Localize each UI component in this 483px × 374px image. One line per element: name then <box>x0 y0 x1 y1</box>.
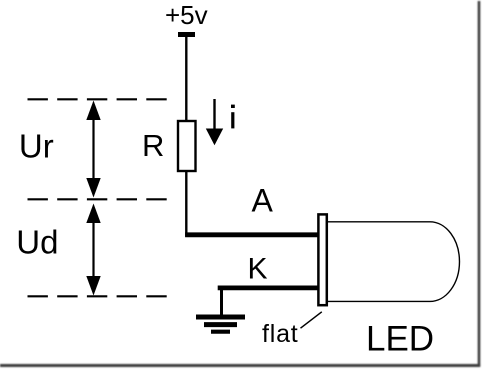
svg-text:LED: LED <box>366 320 434 359</box>
svg-text:A: A <box>252 183 274 219</box>
svg-text:flat: flat <box>262 320 299 348</box>
svg-text:R: R <box>142 128 164 163</box>
svg-text:Ud: Ud <box>16 224 58 261</box>
svg-text:+5v: +5v <box>165 0 208 30</box>
svg-text:K: K <box>248 252 268 285</box>
svg-text:Ur: Ur <box>19 128 54 165</box>
